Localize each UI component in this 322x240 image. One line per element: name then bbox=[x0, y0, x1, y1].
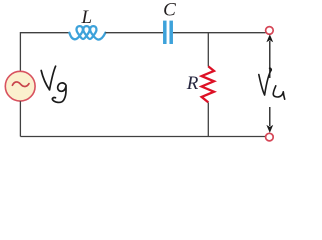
wire: source bottom to bottom rail bbox=[19, 101, 21, 136]
wire: resistor branch top bbox=[207, 33, 209, 67]
source sine wave bbox=[12, 82, 29, 87]
resistor R zigzag bbox=[202, 66, 214, 102]
svg-text:R: R bbox=[186, 73, 199, 94]
label Vg (handwritten) bbox=[41, 66, 66, 102]
label V4 (handwritten, between arrows) bbox=[259, 68, 285, 99]
terminal bottom (open circle) bbox=[266, 133, 274, 141]
svg-text:C: C bbox=[163, 0, 176, 21]
arrow down toward bottom terminal bbox=[266, 107, 273, 133]
terminal top (open circle) bbox=[266, 27, 274, 35]
source Vg (AC) circle bbox=[5, 71, 35, 101]
wire: top-left segment from source branch to inductor bbox=[20, 33, 69, 71]
wire: bottom rail bbox=[20, 136, 265, 138]
inductor L (coil) bbox=[69, 26, 105, 39]
capacitor C plates bbox=[165, 21, 171, 44]
wire: capacitor to top terminal bbox=[173, 32, 266, 34]
wire: inductor to capacitor bbox=[105, 32, 163, 34]
arrow up toward top terminal bbox=[266, 34, 273, 78]
wire: resistor bottom to bottom rail bbox=[207, 103, 209, 137]
svg-text:L: L bbox=[81, 7, 93, 28]
